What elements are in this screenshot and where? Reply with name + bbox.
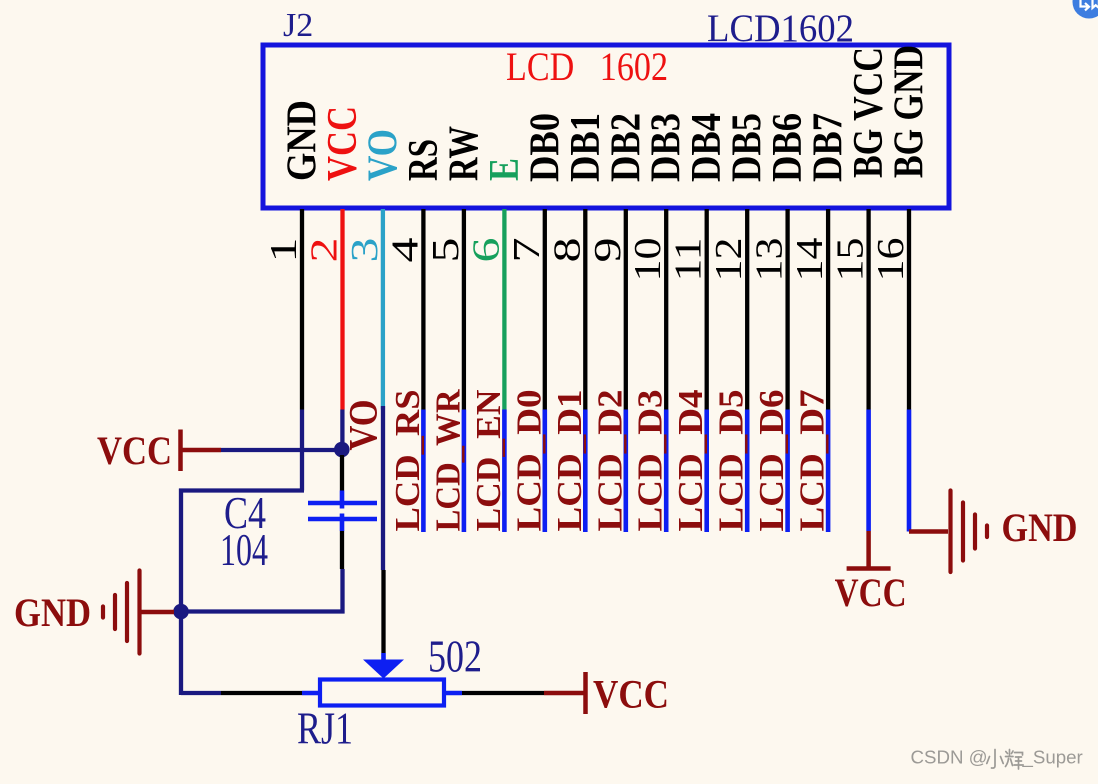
wire pin1 horizontal	[179, 488, 304, 492]
pin 16 stub	[907, 209, 911, 410]
pin 14 stub	[826, 209, 830, 410]
capacitor C4 top pin	[340, 455, 344, 491]
wire net LCD_EN	[502, 410, 507, 533]
svg-text:LCD_D7: LCD_D7	[793, 390, 832, 532]
svg-text:DB2: DB2	[603, 113, 649, 182]
wire pin15 blue	[866, 410, 871, 532]
power GND left stem	[141, 610, 174, 615]
wire pin2 to VCC node	[340, 410, 344, 451]
pin 4 stub	[421, 209, 425, 410]
capacitor C4 plate nubs	[340, 505, 345, 509]
svg-text:1: 1	[263, 238, 305, 263]
svg-text:GND: GND	[280, 100, 326, 181]
svg-text:9: 9	[587, 238, 629, 263]
wire net LCD_WR	[462, 410, 467, 533]
svg-text:104: 104	[220, 525, 268, 575]
svg-text:GND: GND	[14, 590, 91, 635]
svg-text:13: 13	[749, 238, 791, 282]
pin 9 stub	[624, 209, 628, 410]
capacitor C4 bottom lead	[340, 521, 345, 531]
resistor RJ1 body	[320, 680, 444, 706]
pin 2 stub	[340, 209, 344, 410]
capacitor C4 plate top	[308, 501, 377, 506]
svg-text:DB6: DB6	[765, 113, 811, 182]
wire VCC to pin2	[221, 448, 341, 452]
svg-text:LCD_D5: LCD_D5	[712, 390, 751, 532]
junction node VCC	[334, 442, 350, 458]
pin 3 stub	[381, 209, 385, 410]
svg-text:LCD_D4: LCD_D4	[671, 390, 710, 532]
pin 6 stub	[502, 209, 506, 410]
svg-text:DB1: DB1	[563, 113, 609, 182]
svg-text:15: 15	[830, 238, 872, 282]
wire cap to gnd rail	[340, 569, 344, 614]
svg-text:BG VCC: BG VCC	[846, 47, 892, 178]
svg-text:LCD_EN: LCD_EN	[469, 390, 508, 532]
svg-text:DB3: DB3	[644, 113, 690, 182]
svg-text:2: 2	[304, 238, 346, 263]
svg-text:J2: J2	[283, 7, 313, 44]
wire pin3 VO navy	[381, 406, 385, 570]
svg-text:LCD_D3: LCD_D3	[631, 390, 670, 532]
svg-text:LCD_D1: LCD_D1	[550, 390, 589, 532]
svg-text:DB0: DB0	[522, 113, 568, 182]
svg-text:DB4: DB4	[684, 113, 730, 182]
power GND left bars	[103, 571, 140, 654]
svg-text:VCC: VCC	[835, 570, 907, 615]
wire pin16 blue	[907, 410, 912, 532]
pin 5 stub	[462, 209, 466, 410]
svg-text:12: 12	[708, 238, 750, 282]
wire left rail vertical	[179, 489, 183, 696]
csdn icon	[1073, 0, 1098, 19]
svg-text:RW: RW	[441, 126, 487, 181]
watermark	[911, 747, 1083, 769]
pin 7 stub	[543, 209, 547, 410]
pin 8 stub	[583, 209, 587, 410]
power GND right bars	[951, 491, 988, 573]
junction node GND	[173, 604, 189, 620]
svg-text:RJ1: RJ1	[297, 704, 353, 754]
capacitor C4 plate bottom	[308, 517, 377, 522]
svg-text:LCD1602: LCD1602	[707, 7, 854, 50]
svg-text:16: 16	[870, 238, 912, 282]
wire net LCD_D2	[623, 410, 628, 533]
svg-text:5: 5	[425, 238, 467, 263]
wire net LCD_RS	[421, 410, 426, 533]
svg-text:4: 4	[384, 238, 426, 263]
power VCC left stem	[181, 448, 222, 453]
svg-text:10: 10	[627, 238, 669, 282]
svg-text:LCD_WR: LCD_WR	[428, 389, 467, 532]
wire rail to RJ1 navy	[181, 691, 221, 695]
power VCC right stem	[866, 531, 871, 569]
svg-text:CSDN @: CSDN @	[911, 747, 988, 768]
resistor RJ1 right lead	[444, 691, 462, 696]
svg-text:VCC: VCC	[97, 428, 172, 473]
wire net LCD_D0	[542, 410, 547, 533]
capacitor C4 bottom pin	[340, 531, 344, 569]
power VCC bottom bar	[583, 672, 588, 714]
wiper nub blue	[381, 653, 386, 660]
wire net LCD_D7	[826, 410, 831, 533]
pin 12 stub	[745, 209, 749, 410]
svg-text:LCD_RS: LCD_RS	[388, 390, 427, 532]
svg-text:14: 14	[789, 238, 831, 282]
capacitor C4 top lead	[340, 491, 345, 502]
svg-text:DB7: DB7	[806, 113, 852, 182]
svg-text:LCD_D0: LCD_D0	[509, 390, 548, 532]
wire gnd horizontal	[179, 609, 345, 613]
wire net LCD_D3	[664, 410, 669, 533]
svg-text:7: 7	[506, 238, 548, 263]
svg-text:11: 11	[668, 238, 710, 282]
pin 15 stub	[866, 209, 870, 410]
svg-text:DB5: DB5	[725, 113, 771, 182]
svg-text:BG GND: BG GND	[887, 45, 933, 178]
svg-text:VCC: VCC	[593, 672, 669, 717]
svg-text:LCD_D2: LCD_D2	[590, 390, 629, 532]
wiper arrow	[363, 660, 404, 679]
svg-text:6: 6	[465, 238, 507, 263]
wire pin1 down	[300, 410, 304, 491]
wire net LCD_D1	[583, 410, 588, 533]
wire RJ1 to VCC black	[462, 691, 544, 695]
wire net LCD_D6	[785, 410, 790, 533]
power VCC right bar	[847, 566, 891, 571]
svg-text:VCC: VCC	[320, 106, 366, 181]
pin 1 stub	[300, 209, 304, 410]
power VCC bottom stem	[544, 691, 585, 696]
pin 11 stub	[705, 209, 709, 410]
svg-text:GND: GND	[1002, 505, 1078, 550]
power VCC left bar	[178, 430, 183, 472]
svg-text:3: 3	[344, 238, 386, 263]
svg-text:_Super: _Super	[1022, 747, 1083, 769]
wiper pin black	[381, 570, 385, 653]
svg-text:LCD_D6: LCD_D6	[752, 390, 791, 532]
wire net LCD_D4	[704, 410, 709, 533]
svg-text:VO: VO	[360, 129, 406, 181]
pin 10 stub	[664, 209, 668, 410]
connector J2 box	[263, 45, 949, 208]
pin 13 stub	[785, 209, 789, 410]
svg-text:8: 8	[546, 238, 588, 263]
wire net LCD_D5	[745, 410, 750, 533]
svg-text:VO: VO	[341, 400, 386, 451]
power GND right stem	[909, 529, 948, 534]
svg-text:502: 502	[428, 632, 482, 682]
svg-text:E: E	[482, 158, 528, 181]
resistor RJ1 left lead	[302, 691, 320, 696]
wire rail to RJ1 black	[221, 691, 302, 695]
svg-text:RS: RS	[401, 139, 447, 181]
svg-text:LCD 1602: LCD 1602	[506, 44, 668, 89]
